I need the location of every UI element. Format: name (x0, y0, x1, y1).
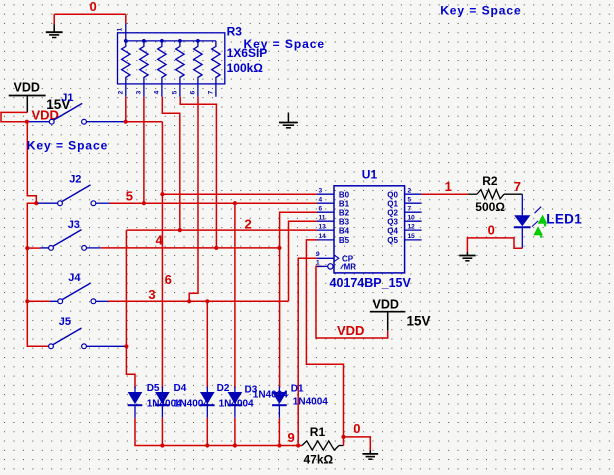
ground GND4 (bottom right) (362, 450, 378, 459)
IC U1 40174BP body (334, 186, 405, 273)
svg-text:7: 7 (408, 205, 412, 212)
label J3 (68, 219, 80, 231)
value label 1N4004 (D5) (147, 399, 182, 410)
wire D4 cathode to bus (161, 418, 163, 446)
svg-text:D4: D4 (174, 383, 187, 394)
wire R3 pin 2 down to J1 net (125, 97, 127, 121)
svg-text:12: 12 (408, 223, 416, 230)
junction net 3 / D2 column (205, 299, 209, 303)
ground GND1 (top-left) (46, 24, 63, 37)
svg-text:J4: J4 (68, 272, 81, 284)
wire R3 pin 5 jog down to net 4 (180, 97, 216, 248)
svg-text:47kΩ: 47kΩ (304, 452, 334, 466)
label D4 (174, 383, 187, 394)
power symbol VDD (middle) (370, 297, 406, 331)
value label 15V (middle) (407, 313, 431, 328)
junction at VDD/J1 left (25, 120, 29, 124)
U1 right pin stubs Q0-Q5 (405, 194, 422, 240)
value label 100kOhm (227, 61, 264, 75)
svg-text:B2: B2 (339, 208, 350, 217)
net label 7 (514, 179, 521, 194)
label Key = Space (top right) (440, 4, 522, 18)
value label 1N4004 (D4) (174, 399, 209, 410)
junction net 6 / B0 wire (160, 192, 164, 196)
net label 9 (288, 430, 295, 445)
U1 input labels B0-B5 (339, 190, 350, 245)
junction D3 / net 9 (233, 443, 237, 447)
junction D4 / net 9 (160, 443, 164, 447)
U1 MR pin with bubble, pin 1 (316, 260, 356, 272)
resistor R2 500 (468, 190, 522, 199)
net label VDD (red, middle) (337, 323, 364, 338)
label J5 (59, 316, 71, 328)
svg-text:7: 7 (514, 179, 521, 194)
svg-text:9: 9 (288, 430, 295, 445)
junction at J4 input (25, 299, 29, 303)
junction net 5 / D3 column (233, 201, 237, 205)
svg-text:Key = Space: Key = Space (440, 4, 522, 18)
wire net 6: J1 column down to D4 and B0 (161, 122, 163, 388)
wire VDD to chip MR (316, 266, 388, 338)
wire VDD bus J2 to J3 (27, 203, 36, 248)
svg-text:B0: B0 (339, 190, 350, 199)
wire D3 cathode to bus (234, 418, 236, 446)
value label 1N4004 (D2) (219, 399, 254, 410)
wire net 2: B4 row from corner to chip (126, 229, 317, 231)
svg-text:U1: U1 (362, 168, 378, 182)
svg-text:B4: B4 (339, 226, 350, 235)
LED1 emission arrows (532, 207, 547, 238)
svg-text:R1: R1 (310, 425, 326, 439)
junction R3 pin4 column / net 2 (178, 228, 182, 232)
svg-text:100kΩ: 100kΩ (227, 61, 264, 75)
svg-text:9: 9 (316, 251, 320, 258)
label R1 (310, 425, 326, 439)
svg-text:5: 5 (172, 90, 179, 94)
wire net 4 column: chip B2 down to D1 (280, 212, 317, 388)
svg-text:6: 6 (190, 90, 197, 94)
svg-text:D1: D1 (291, 384, 304, 395)
diode D4 (155, 387, 170, 418)
junction net 4 / B2-D1 column (277, 246, 281, 250)
diode D1 (272, 387, 287, 418)
svg-text:40174BP_15V: 40174BP_15V (330, 276, 412, 290)
resistor pack R3 1X6SIP body (118, 33, 225, 84)
junction R3 pin3 / net 5 (142, 201, 146, 205)
U1 pin numbers 2 5 7 10 12 15 (408, 187, 416, 240)
svg-text:3: 3 (148, 287, 155, 302)
svg-text:D2: D2 (217, 383, 230, 394)
svg-text:0: 0 (488, 222, 495, 237)
junction R3 pin2 / J1 wire (124, 120, 128, 124)
svg-text:0: 0 (90, 0, 97, 14)
value label 47kOhm (304, 452, 334, 466)
svg-text:13: 13 (319, 223, 327, 230)
net label 1 (445, 179, 452, 194)
switch J2 (38, 185, 96, 206)
net label 3 (148, 287, 155, 302)
resistor R1 47k (302, 441, 344, 450)
wire J1 to net 6 column (86, 121, 162, 123)
U1 pin numbers 3 4 6 11 13 14 (319, 187, 327, 240)
svg-text:Q2: Q2 (387, 208, 398, 217)
net label 0 (top-left) (90, 0, 97, 14)
svg-text:J3: J3 (68, 219, 80, 231)
label D1 (291, 384, 304, 395)
wire chip B5 down to net 0 (306, 240, 343, 437)
svg-text:VDD: VDD (373, 297, 399, 311)
svg-text:6: 6 (319, 205, 323, 212)
switch J5 (49, 328, 87, 349)
svg-text:B1: B1 (339, 199, 350, 208)
wire net 2 column down to D5 (126, 230, 135, 388)
wire net 0 from ground to R3 pin 1 (54, 14, 126, 24)
svg-text:1N4004: 1N4004 (174, 399, 209, 410)
net label VDD (red, left) (32, 108, 59, 123)
wire net 2 column down to D2 (206, 301, 208, 388)
svg-text:4: 4 (154, 90, 161, 94)
svg-text:J5: J5 (59, 316, 71, 328)
label U1 (362, 168, 378, 182)
wire net 0: LED cathode to ground (467, 238, 522, 252)
svg-text:MR: MR (344, 262, 357, 271)
svg-text:0: 0 (353, 421, 360, 436)
svg-text:5: 5 (126, 189, 133, 204)
U1 left pin stubs B0-B5 (317, 194, 334, 240)
svg-text:15V: 15V (407, 313, 431, 328)
svg-text:VDD: VDD (337, 323, 364, 338)
junction D2 / net 9 (205, 443, 209, 447)
diode D2 (200, 387, 215, 418)
junction at J3 input (25, 246, 29, 250)
svg-text:2: 2 (245, 217, 252, 232)
switch J3 (29, 230, 87, 251)
svg-text:3: 3 (136, 90, 143, 94)
wire net 6 to chip B0 (162, 193, 317, 195)
net label 4 (156, 233, 164, 248)
svg-text:VDD: VDD (32, 108, 59, 123)
wire VDD to J1 (left edge jog) (1, 112, 27, 121)
svg-text:10: 10 (408, 214, 416, 221)
wire net 1: Q0 to R2 (422, 193, 468, 195)
label Key = Space (for R3 area) (244, 37, 326, 51)
wire VDD bus down J1 to J2 with jog (27, 122, 36, 204)
wire net 4: J3 to D1 column (87, 247, 280, 249)
value label 1N4004 (D1) (293, 396, 328, 407)
LED LED1 (514, 215, 531, 248)
svg-text:1: 1 (117, 27, 124, 31)
net label 2 (245, 217, 252, 232)
svg-text:B5: B5 (339, 236, 350, 245)
svg-text:J1: J1 (61, 92, 73, 104)
R3 bottom pin stubs with pin numbers 2-7 (118, 84, 216, 97)
wire R1 right to net 0 (344, 437, 371, 451)
svg-text:4: 4 (319, 196, 323, 203)
wire net 3 corner up to chip B3 (289, 221, 318, 301)
wire D2 cathode to bus (206, 418, 208, 446)
wire J5 to net 2 column (86, 345, 126, 347)
svg-text:3: 3 (319, 187, 323, 194)
svg-text:Q1: Q1 (387, 199, 398, 208)
svg-text:Q0: Q0 (387, 190, 398, 199)
label D5 (147, 383, 160, 394)
svg-text:Q4: Q4 (387, 226, 398, 235)
ground GND2 (floating, middle top) (279, 113, 298, 128)
junction CP / net 9 (296, 443, 300, 447)
svg-text:1X6SIP: 1X6SIP (227, 46, 268, 60)
net label 0 (bottom right) (353, 421, 360, 436)
label D2 (217, 383, 230, 394)
junction R3 pin5 column / net 4 (214, 246, 218, 250)
switch J4 (29, 283, 96, 304)
label D3 (245, 385, 258, 396)
junction at J2 input (34, 201, 38, 205)
net label 0 (LED) (488, 222, 495, 237)
U1 output labels Q0-Q5 (387, 190, 398, 245)
label 40174BP_15V (330, 276, 412, 290)
svg-text:11: 11 (319, 214, 326, 221)
svg-text:2: 2 (118, 90, 125, 94)
wire VDD bus J4 to J5 (27, 301, 48, 346)
value label 500Ohm (475, 200, 505, 214)
junction D1 / net 9 (277, 443, 281, 447)
wire net 9 bus under diodes (135, 418, 302, 446)
svg-text:500Ω: 500Ω (475, 200, 505, 214)
value label 1X6SIP (227, 46, 268, 60)
wire net 5 column down to D3 (234, 203, 236, 388)
label R2 (482, 174, 498, 188)
label Key = Space (J1) (27, 138, 109, 152)
label LED1 (546, 212, 582, 227)
switch J1 (29, 103, 86, 124)
svg-text:6: 6 (165, 272, 172, 287)
wire net 7: R2 corner down to LED (521, 194, 523, 215)
svg-text:Q3: Q3 (387, 217, 398, 226)
wire D1 cathode to bus (278, 418, 280, 446)
label J2 (69, 174, 81, 186)
diode D3 (228, 387, 243, 418)
svg-text:Key = Space: Key = Space (27, 138, 109, 152)
svg-text:VDD: VDD (14, 81, 40, 95)
label J4 (68, 272, 81, 284)
diode D5 (128, 387, 143, 418)
svg-text:7: 7 (208, 90, 215, 94)
svg-text:B3: B3 (339, 217, 350, 226)
wire VDD bus J3 to J4 (26, 248, 28, 301)
svg-text:1: 1 (316, 260, 320, 267)
svg-text:R3: R3 (227, 25, 243, 39)
power symbol VDD (left) (9, 81, 46, 113)
wire R3 pin 3 down to net 5 (143, 97, 145, 203)
svg-text:LED1: LED1 (546, 212, 582, 227)
resistor pack R3 pin 1 stub (117, 24, 126, 33)
wire R3 pin 4 jog down to net 2 (162, 97, 180, 230)
ground GND3 (below LED) (459, 252, 475, 261)
svg-text:2: 2 (408, 187, 412, 194)
svg-text:14: 14 (319, 233, 327, 240)
junction J5 / net 2 column (124, 344, 128, 348)
svg-text:R2: R2 (482, 174, 498, 188)
wire net 5: J2 to chip B1 (96, 202, 317, 204)
net label 6 (165, 272, 172, 287)
svg-text:Q5: Q5 (387, 236, 398, 245)
wire net 3: J4 to chip B3 corner (96, 300, 289, 302)
value label 15V (left) (46, 97, 70, 112)
svg-text:J2: J2 (69, 174, 81, 186)
net label 5 (126, 189, 133, 204)
junction B5 column / R1 / net 0 (341, 435, 345, 439)
junction R3 pin6 / net 3 (187, 299, 191, 303)
svg-text:1: 1 (445, 179, 452, 194)
svg-text:15: 15 (408, 233, 416, 240)
value label 1N4004 (D3) (253, 389, 288, 400)
wire chip CP down to net 9 (298, 258, 317, 445)
label J1 (61, 92, 73, 104)
label R3 (227, 25, 243, 39)
svg-text:5: 5 (408, 196, 412, 203)
U1 CP pin with clock wedge, pin 9 (316, 251, 354, 263)
wire R3 pin 6 down with jog to net 3 (189, 97, 198, 301)
